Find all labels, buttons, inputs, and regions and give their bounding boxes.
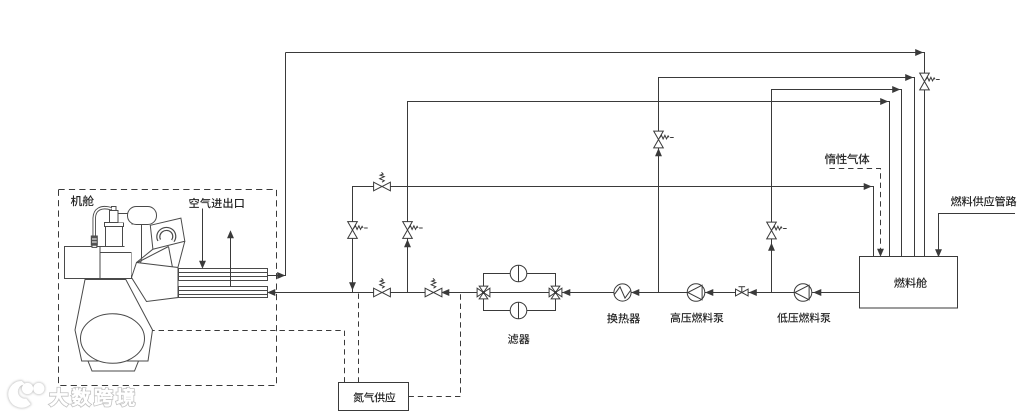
watermark logo <box>9 382 44 408</box>
engine: turbocharger column <box>132 224 142 277</box>
high-pressure fuel pump 高压燃料泵 <box>687 284 705 302</box>
low-pressure fuel pump 低压燃料泵 <box>794 284 812 302</box>
air inlet arrow (down) <box>202 209 204 267</box>
label 高压燃料泵 <box>671 313 724 323</box>
flow arrow left toward filter <box>564 290 570 295</box>
flow arrow left toward LP pump <box>815 290 821 295</box>
engine: scavenge duct box <box>132 263 179 302</box>
flow arrow left toward heat exchanger <box>633 290 639 295</box>
watermark text 大数跨境 <box>50 388 135 406</box>
engine: scavenge air receiver box <box>65 247 101 279</box>
engine room boundary (dashed box 机舱) <box>59 190 277 386</box>
engine: turbo air filter box (tilted) <box>150 218 185 249</box>
engine: injector fitting <box>91 236 97 245</box>
label 空气进出口 (air inlet/outlet) <box>189 198 243 208</box>
relief valve V4 on riser x=658.5 <box>654 131 664 139</box>
wire: gas line L3 (y=89.5) from pump junction riser x=771.5 to tank riser x=901.5 <box>772 90 894 293</box>
spring-loaded valve B on main line <box>425 288 433 297</box>
engine: cylinder body <box>106 227 123 247</box>
engine: air cooler lower tube bundle <box>179 287 268 298</box>
engine: block top slab line <box>101 246 125 248</box>
air outlet arrow (up) <box>230 234 232 287</box>
spring-loaded valve on L5 <box>374 182 382 191</box>
nitrogen dashed line: box right to riser x=460.5 up to main line <box>409 294 461 397</box>
engine: turbo intake horn <box>158 229 174 241</box>
fuel bunkering line 燃料供应管路 <box>939 214 1016 250</box>
three-way valve left of filter <box>477 288 483 297</box>
wire: gas line L2 (y=77.5) from heater junction riser x=658.5 to tank riser x=914.5 <box>659 78 906 293</box>
filter element F2 (lower circle) <box>510 302 527 319</box>
label 燃料供应管路 <box>951 196 1017 207</box>
wire: gas line L5 (y=186.5) with branch riser x=352.5 down to main line <box>353 187 865 293</box>
label 惰性气体 <box>825 153 870 164</box>
relief valve V2 on riser x=352.5 <box>348 222 358 230</box>
wire: gas line L4 (y=101.5) from valve column riser x=407.5 to tank riser x=889.5 <box>408 102 882 293</box>
flow arrow left toward valve B <box>443 290 449 295</box>
engine: air cooler upper tube bundle <box>179 269 268 281</box>
flow arrow left toward HP pump <box>707 290 713 295</box>
label 换热器 (heat exchanger) <box>607 313 640 323</box>
wire: main fuel line (y=292.5) from fuel tank to engine <box>275 292 860 294</box>
engine: cylinder head flange <box>105 223 124 227</box>
label 燃料舱 <box>894 277 927 288</box>
heat exchanger 换热器 <box>614 284 631 301</box>
label 滤器 (filter) <box>508 334 530 344</box>
engine: head side block <box>118 214 132 223</box>
engine: A-frame body <box>75 280 153 362</box>
nitrogen dashed line: box top to engine (x=344.5, y=330.5) <box>153 331 345 383</box>
label 低压燃料泵 <box>777 313 830 323</box>
spring-loaded valve A on main line <box>374 288 382 297</box>
relief valve on L1 riser <box>920 73 930 81</box>
filter element F1 (upper circle) <box>510 265 527 282</box>
engine: turbo support struts <box>137 249 153 262</box>
engine: crankcase ellipse <box>81 314 145 364</box>
wire: engine gas return line corner (y=275.5) and riser x=285.5 <box>268 275 280 277</box>
flow arrow left toward globe valve <box>750 290 756 295</box>
engine: exhaust valve housing <box>110 211 119 223</box>
wire: top gas line L1 (y=52.5) to tank riser x=924.5 <box>286 52 916 54</box>
watermark blur filter <box>0 0 1 1</box>
relief valve V5 on riser x=771.5 <box>767 222 777 230</box>
flow arrow down on riser x=352.5 <box>350 283 355 289</box>
fuel tank 燃料舱 <box>860 257 958 309</box>
relief valve V3 on riser x=407.5 <box>403 222 413 230</box>
engine: valve cap <box>112 207 117 211</box>
nitrogen dashed line: box top to main line (x=358.5) <box>358 294 360 383</box>
three-way valve right of filter <box>549 288 555 297</box>
engine: fuel pipe elbow <box>94 208 111 236</box>
flow arrow up on riser x=658.5 <box>656 150 661 156</box>
label 机舱 (engine room) <box>71 195 94 206</box>
inert gas dashed supply line 惰性气体 <box>830 169 881 250</box>
globe valve with T-handle between pumps <box>736 289 742 296</box>
engine: main block <box>90 253 132 279</box>
label 氮气供应 <box>353 392 395 402</box>
flow arrow up on riser x=771.5 <box>769 244 774 250</box>
engine: turbocharger body <box>128 207 157 225</box>
flow arrow up on riser x=407.5 <box>405 241 410 247</box>
engine: injector base <box>92 245 97 247</box>
nitrogen supply box 氮气供应 <box>339 383 409 411</box>
filter parallel branch rails <box>484 274 556 288</box>
engine: bedplate <box>88 361 139 371</box>
flow arrow into engine air cooler <box>269 290 275 295</box>
